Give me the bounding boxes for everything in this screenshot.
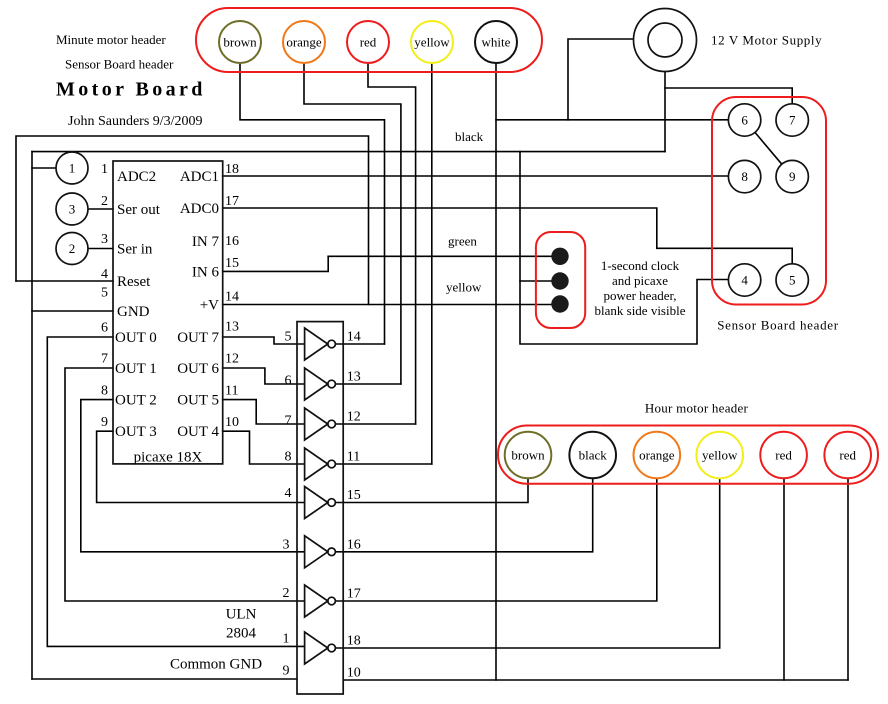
svg-text:16: 16 [225, 234, 239, 249]
svg-text:brown: brown [511, 448, 545, 463]
svg-text:brown: brown [223, 35, 257, 50]
wire picaxe pin5 GND [32, 310, 113, 312]
wire picaxe pin18 ADC1 to sensor circle 8 [223, 175, 729, 177]
hour header pin red 2 [824, 432, 871, 479]
svg-text:9: 9 [101, 415, 108, 430]
clock power header pin 3 [551, 295, 568, 312]
svg-text:black: black [455, 129, 484, 144]
svg-text:15: 15 [225, 256, 239, 271]
wire picaxe pin10 OUT4 to gate4 input [223, 431, 305, 464]
ULN gate 7 [305, 585, 336, 617]
svg-text:5: 5 [789, 273, 796, 288]
minute header pin yellow [411, 21, 453, 63]
svg-text:14: 14 [347, 329, 361, 344]
sensor board header connector outline [712, 97, 826, 305]
wire +5V top rail from Reset to +V column [16, 136, 369, 305]
wire picaxe pin7 OUT1 to gate7 input [65, 368, 305, 601]
svg-text:1: 1 [101, 162, 108, 177]
ULN gate 8 [305, 632, 336, 664]
svg-text:yellow: yellow [414, 35, 450, 50]
wire ULN gate6 output to hour black [335, 478, 592, 552]
svg-text:2: 2 [283, 586, 290, 601]
wire ULN pin10 +12V bottom row [343, 679, 848, 681]
clock power header outline [536, 232, 585, 328]
svg-text:12: 12 [225, 352, 239, 367]
svg-text:1: 1 [69, 161, 76, 176]
svg-text:ADC1: ADC1 [180, 169, 219, 185]
svg-text:5: 5 [101, 286, 108, 301]
svg-text:14: 14 [225, 289, 239, 304]
svg-text:IN 6: IN 6 [192, 264, 220, 280]
svg-text:blank side visible: blank side visible [595, 303, 686, 318]
wire ULN gate4 output to yellow [335, 463, 431, 465]
wire green to clock header top pin [328, 255, 552, 257]
svg-text:picaxe 18X: picaxe 18X [134, 450, 203, 466]
wire picaxe pin14 +V to clock header bottom pin [223, 304, 552, 306]
wire minute brown drop [240, 63, 385, 344]
minute header pin white [475, 21, 517, 63]
minute header pin brown [219, 21, 261, 63]
svg-text:18: 18 [347, 634, 361, 649]
ULN gate 5 [305, 487, 336, 519]
svg-text:1-second clock: 1-second clock [601, 258, 680, 273]
svg-text:OUT 3: OUT 3 [115, 424, 157, 440]
wire GND drop x=520 to clock header middle pin [520, 152, 728, 344]
svg-text:John Saunders 9/3/2009: John Saunders 9/3/2009 [68, 114, 203, 129]
svg-text:Motor Board: Motor Board [56, 79, 206, 101]
svg-text:12 V Motor Supply: 12 V Motor Supply [711, 33, 822, 48]
sensor header pin 4 [728, 264, 760, 296]
svg-text:OUT 4: OUT 4 [177, 424, 219, 440]
minute header pin orange [283, 21, 325, 63]
svg-text:+V: +V [200, 298, 219, 314]
wire GND left vertical x=32 [31, 152, 33, 679]
svg-text:2: 2 [69, 241, 76, 256]
ULN gate 1 [305, 328, 336, 360]
12V motor supply plug inner [648, 23, 682, 57]
svg-text:9: 9 [283, 664, 290, 679]
wire picaxe pin15 IN6 jog [223, 256, 329, 271]
svg-text:Hour motor header: Hour motor header [645, 401, 749, 416]
12V motor supply plug outer [634, 9, 697, 72]
IC U2 ULN 2804 body [297, 322, 343, 694]
wire white +12V vertical [495, 63, 497, 680]
svg-text:Sensor Board header: Sensor Board header [65, 57, 174, 72]
svg-text:10: 10 [225, 415, 239, 430]
connector circle 2 [56, 233, 88, 265]
wire picaxe pin6 OUT0 to gate8 input [47, 337, 304, 646]
clock power header pin 1 [551, 248, 568, 265]
svg-text:7: 7 [285, 414, 292, 429]
svg-text:OUT 0: OUT 0 [115, 330, 157, 346]
wire minute red drop [368, 63, 416, 424]
svg-text:8: 8 [101, 383, 108, 398]
wire minute orange drop [304, 63, 401, 384]
wire picaxe pin11 OUT5 to gate3 input [223, 400, 305, 424]
sensor header pin 8 [728, 160, 760, 192]
svg-text:9: 9 [789, 169, 796, 184]
wire 12V supply bottom terminal down to GND rail [664, 72, 666, 152]
svg-text:2: 2 [101, 194, 108, 209]
wire ULN gate3 output to red [335, 423, 415, 425]
minute header pin red [347, 21, 389, 63]
svg-text:ULN: ULN [226, 607, 257, 623]
wire clock header middle pin stub [520, 280, 552, 282]
svg-text:orange: orange [639, 448, 675, 463]
hour header pin yellow [696, 432, 743, 479]
wire ULN gate5 output to hour brown [335, 478, 528, 502]
svg-text:4: 4 [741, 273, 748, 288]
ULN gate 6 [305, 536, 336, 568]
svg-text:4: 4 [101, 267, 108, 282]
sensor header pin 7 [776, 104, 808, 136]
svg-text:3: 3 [101, 232, 108, 247]
wire picaxe pin12 OUT6 to gate2 input [223, 368, 305, 384]
wire 12V supply to sensor circle 7 [665, 88, 792, 104]
svg-text:Ser out: Ser out [117, 202, 161, 218]
svg-text:5: 5 [285, 329, 292, 344]
minute motor header connector J1 outline [196, 8, 542, 72]
wire picaxe pin13 OUT7 to gate1 input [223, 337, 305, 344]
wire ULN gate8 output to hour yellow [335, 478, 719, 648]
svg-text:red: red [839, 448, 856, 463]
wire picaxe pin8 OUT2 to gate6 input [81, 400, 305, 552]
wire picaxe pin9 OUT3 to gate5 input [97, 431, 305, 502]
hour header pin orange [634, 432, 681, 479]
svg-text:10: 10 [347, 666, 361, 681]
svg-text:Common GND: Common GND [170, 657, 262, 673]
wire hour red 1 riser [783, 478, 785, 680]
hour header pin black [569, 432, 616, 479]
ULN gate 3 [305, 408, 336, 440]
svg-text:and picaxe: and picaxe [612, 273, 668, 288]
svg-text:6: 6 [285, 373, 292, 388]
wire +12V to sensor circle 6 [496, 119, 728, 121]
svg-text:6: 6 [741, 113, 748, 128]
svg-text:18: 18 [225, 162, 239, 177]
wire ULN gate7 output to hour orange [335, 478, 656, 601]
svg-text:4: 4 [285, 486, 292, 501]
svg-text:7: 7 [789, 113, 796, 128]
wire ULN gate2 output to orange [335, 383, 401, 385]
svg-text:13: 13 [225, 319, 239, 334]
svg-text:6: 6 [101, 321, 108, 336]
svg-text:white: white [482, 35, 511, 50]
svg-text:17: 17 [225, 194, 239, 209]
svg-text:Sensor Board header: Sensor Board header [717, 318, 839, 333]
sensor header pin 6 [728, 104, 760, 136]
svg-text:ADC0: ADC0 [180, 201, 219, 217]
svg-text:OUT 2: OUT 2 [115, 393, 157, 409]
svg-text:OUT 7: OUT 7 [177, 330, 219, 346]
svg-text:red: red [775, 448, 792, 463]
wire picaxe pin3 Ser in from circle 2 [88, 248, 113, 250]
svg-text:3: 3 [69, 202, 76, 217]
svg-text:11: 11 [225, 383, 238, 398]
svg-text:1: 1 [283, 631, 290, 646]
svg-text:Reset: Reset [117, 274, 151, 290]
svg-text:OUT 5: OUT 5 [177, 393, 219, 409]
svg-text:15: 15 [347, 488, 361, 503]
wire ULN pin9 GND row [32, 678, 297, 680]
svg-text:red: red [360, 35, 377, 50]
svg-text:black: black [579, 448, 608, 463]
svg-text:ADC2: ADC2 [117, 169, 156, 185]
ULN gate 4 [305, 448, 336, 480]
svg-text:17: 17 [347, 587, 361, 602]
svg-text:OUT 6: OUT 6 [177, 361, 219, 377]
connector circle 3 [56, 193, 88, 225]
svg-text:power header,: power header, [603, 288, 676, 303]
svg-text:3: 3 [283, 537, 290, 552]
wire hour red 2 riser [847, 478, 849, 680]
connector circle 1 [56, 152, 88, 184]
svg-text:Minute motor header: Minute motor header [56, 32, 166, 47]
wire sensor jumper circle 6 to circle 9 [755, 132, 782, 164]
wire GND top rail y=152 [32, 151, 665, 153]
wire 12V supply left terminal [568, 39, 634, 120]
svg-text:OUT 1: OUT 1 [115, 361, 157, 377]
svg-text:Ser in: Ser in [117, 242, 153, 258]
hour motor header connector outline [498, 426, 878, 484]
wire ULN gate1 output to brown [335, 343, 384, 345]
sensor header pin 5 [776, 264, 808, 296]
wire picaxe pin17 ADC0 to sensor circle 5 [223, 208, 793, 264]
svg-text:GND: GND [117, 304, 150, 320]
svg-text:8: 8 [741, 169, 748, 184]
wire picaxe pin4 Reset [16, 280, 113, 282]
wire minute yellow drop [431, 63, 433, 464]
svg-text:orange: orange [286, 35, 322, 50]
svg-text:12: 12 [347, 410, 361, 425]
svg-text:yellow: yellow [446, 280, 482, 295]
svg-text:7: 7 [101, 352, 108, 367]
svg-text:16: 16 [347, 537, 361, 552]
svg-text:yellow: yellow [702, 448, 738, 463]
wire picaxe pin2 Ser out from circle 3 [88, 208, 113, 210]
svg-text:IN 7: IN 7 [192, 234, 220, 250]
sensor header pin 9 [776, 160, 808, 192]
svg-text:8: 8 [285, 450, 292, 465]
hour header pin red 1 [760, 432, 807, 479]
svg-text:13: 13 [347, 369, 361, 384]
svg-text:2804: 2804 [226, 626, 257, 642]
svg-text:11: 11 [347, 450, 360, 465]
svg-text:green: green [448, 234, 477, 249]
ULN gate 2 [305, 368, 336, 400]
IC U1 picaxe 18X body [113, 161, 223, 464]
clock power header pin 2 [551, 272, 568, 289]
wire GND to connector circle 1 [32, 167, 56, 169]
hour header pin brown [505, 432, 552, 479]
